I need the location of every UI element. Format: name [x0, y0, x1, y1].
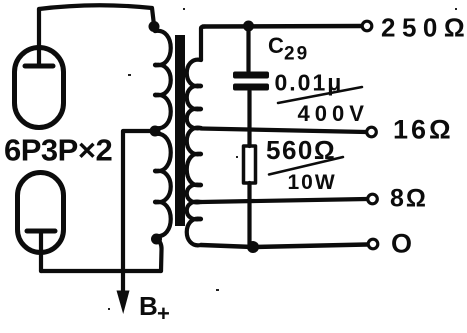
- svg-text:10W: 10W: [288, 171, 337, 194]
- svg-text:16Ω: 16Ω: [393, 115, 454, 145]
- svg-text:8Ω: 8Ω: [390, 185, 428, 213]
- svg-text:B: B: [139, 291, 158, 321]
- svg-text:+: +: [157, 301, 170, 326]
- svg-text:C: C: [268, 33, 284, 58]
- svg-text:29: 29: [284, 44, 309, 65]
- svg-text:0.01μ: 0.01μ: [275, 70, 344, 96]
- svg-text:560Ω: 560Ω: [266, 135, 336, 165]
- svg-text:O: O: [391, 229, 412, 259]
- svg-text:400V: 400V: [298, 101, 369, 126]
- svg-text:250Ω: 250Ω: [381, 13, 467, 43]
- svg-text:6P3P×2: 6P3P×2: [4, 133, 112, 168]
